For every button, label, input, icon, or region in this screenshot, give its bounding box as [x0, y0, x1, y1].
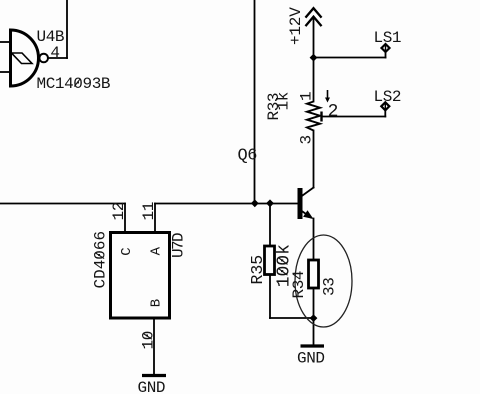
- svg-text:1: 1: [298, 92, 316, 101]
- svg-text:+12V: +12V: [287, 7, 305, 45]
- svg-text:1k: 1k: [274, 92, 292, 110]
- svg-text:C: C: [119, 248, 135, 256]
- svg-text:2: 2: [328, 102, 338, 122]
- svg-text:U7D: U7D: [170, 233, 188, 258]
- svg-text:R35: R35: [248, 255, 267, 285]
- svg-text:B: B: [148, 299, 164, 307]
- svg-text:GND: GND: [138, 379, 166, 394]
- svg-text:LS1: LS1: [374, 29, 402, 47]
- svg-text:GND: GND: [297, 350, 325, 368]
- svg-text:33: 33: [320, 278, 338, 296]
- svg-text:Q6: Q6: [238, 147, 258, 166]
- svg-text:10: 10: [140, 331, 158, 349]
- svg-text:LS2: LS2: [374, 88, 402, 106]
- svg-text:A: A: [148, 246, 164, 255]
- svg-text:4: 4: [50, 44, 59, 62]
- svg-text:R34: R34: [290, 271, 308, 299]
- svg-text:3: 3: [298, 135, 316, 144]
- svg-text:12: 12: [110, 202, 128, 220]
- svg-text:11: 11: [140, 202, 158, 220]
- svg-text:MC14093B: MC14093B: [37, 75, 111, 93]
- svg-text:CD4066: CD4066: [92, 231, 110, 289]
